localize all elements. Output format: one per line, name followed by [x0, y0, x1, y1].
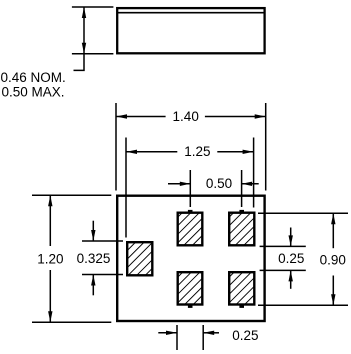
svg-text:1.25: 1.25	[184, 144, 210, 159]
svg-text:0.50 MAX.: 0.50 MAX.	[2, 84, 65, 99]
svg-text:0.46 NOM.: 0.46 NOM.	[1, 70, 66, 85]
svg-text:1.40: 1.40	[173, 109, 199, 124]
svg-text:0.325: 0.325	[77, 251, 111, 266]
svg-text:0.25: 0.25	[232, 328, 258, 343]
svg-text:0.50: 0.50	[206, 176, 232, 191]
svg-text:0.25: 0.25	[278, 251, 304, 266]
svg-text:0.90: 0.90	[320, 252, 346, 267]
svg-text:1.20: 1.20	[37, 251, 63, 266]
